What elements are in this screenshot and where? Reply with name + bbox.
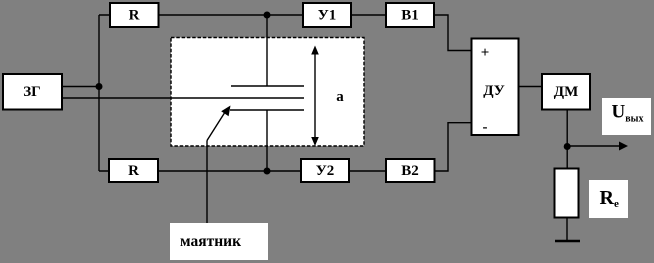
svg-text:a: a: [336, 89, 344, 105]
amplifier U2: [301, 159, 349, 182]
wire: bottom plate lead: [266, 110, 268, 171]
dashed sensor enclosure: [171, 38, 364, 147]
label Uout: [602, 98, 651, 135]
wire: U1 to B1: [351, 14, 386, 16]
wire: ZG to left bus: [62, 86, 99, 88]
wire: top plate lead: [266, 15, 268, 86]
rectifier B1: [386, 3, 434, 27]
svg-text:-: -: [483, 120, 488, 136]
svg-text:У2: У2: [316, 163, 335, 179]
svg-text:R: R: [129, 8, 140, 24]
wire: bottom bus R to U2: [99, 170, 301, 172]
svg-text:+: +: [481, 45, 490, 61]
wire: B2 to DU minus input: [434, 123, 472, 171]
resistor Re (load): [555, 169, 579, 218]
wire: resistor to ground: [566, 218, 568, 242]
rectifier B2: [386, 159, 435, 182]
svg-text:В2: В2: [401, 163, 419, 179]
amplifier U1: [303, 3, 351, 27]
pendulum pointer: [207, 106, 231, 224]
wire: DM output down: [566, 110, 568, 169]
wire: top bus R to U1: [99, 14, 303, 16]
svg-text:ЗГ: ЗГ: [23, 84, 40, 100]
svg-text:ДУ: ДУ: [483, 83, 505, 99]
node: top bus junction: [264, 12, 271, 19]
label Re: [589, 180, 628, 218]
box ZG (signal generator): [3, 74, 62, 110]
svg-text:маятник: маятник: [180, 233, 241, 250]
svg-text:ДМ: ДМ: [554, 84, 578, 100]
node: bottom bus junction: [264, 168, 271, 175]
demodulator DM: [542, 74, 590, 110]
label pendulum (mayatnik): [170, 223, 268, 260]
node: ZG junction: [96, 83, 103, 90]
wire: U2 to B2: [349, 170, 386, 172]
output arrow Uout: [567, 142, 628, 151]
differential amplifier DU: [472, 39, 519, 136]
ground: [555, 240, 580, 242]
svg-text:В1: В1: [401, 8, 419, 24]
wire: ZG to capacitor middle plate: [62, 97, 304, 99]
resistor R top: [110, 3, 159, 27]
wire: DU to DM: [519, 86, 543, 88]
svg-text:R: R: [128, 163, 139, 179]
capacitor bottom plate: [230, 109, 304, 111]
node: output junction: [564, 143, 571, 150]
resistor R bottom: [109, 159, 158, 182]
svg-text:У1: У1: [318, 8, 337, 24]
wire: left vertical bus: [98, 15, 100, 171]
capacitor top plate: [231, 85, 304, 87]
gap dimension arrow a: [311, 46, 319, 147]
wire: B1 to DU plus input: [434, 15, 472, 51]
